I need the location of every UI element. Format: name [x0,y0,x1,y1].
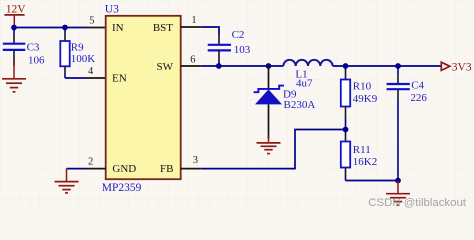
svg-text:103: 103 [234,44,251,56]
svg-text:49K9: 49K9 [353,93,378,105]
svg-text:106: 106 [28,55,45,67]
svg-text:6: 6 [190,54,195,65]
resistor R10 [341,66,350,130]
svg-text:C4: C4 [411,80,424,92]
label L1 4u7 [295,69,313,90]
svg-text:R11: R11 [353,144,371,156]
ground (D9) [257,135,281,154]
node junction R10 [343,63,349,69]
power port 3V3 [441,62,472,74]
label C2 103 [232,29,251,56]
label R10 49K9 [353,80,378,104]
svg-text:100K: 100K [71,53,96,65]
wire 12V rail to IN [14,27,86,29]
pin 3 FB stub [181,168,201,170]
svg-text:C2: C2 [232,29,245,41]
pin 2 GND stub [86,168,106,170]
pin 5 IN stub [86,27,106,29]
svg-text:1: 1 [191,15,196,26]
wire GND pin to ground [67,168,87,170]
svg-text:R9: R9 [71,42,84,54]
svg-text:3: 3 [193,155,198,166]
svg-text:16K2: 16K2 [353,156,377,168]
svg-text:IN: IN [112,22,124,34]
ground (C3) [2,62,26,92]
ground (output) [386,181,410,206]
svg-text:FB: FB [160,163,173,175]
svg-text:4: 4 [88,66,94,77]
node junction C2 [216,63,222,69]
inductor L1 [283,60,332,66]
pin 6 SW stub [181,65,201,67]
svg-text:MP2359: MP2359 [102,182,142,194]
wire BST to C2 [201,27,219,35]
node junction FB/R10/R11 [343,127,349,133]
label R9 100K [71,42,96,65]
node junction R11/C4/gnd [395,178,401,184]
svg-text:GND: GND [112,163,136,175]
svg-text:2: 2 [88,156,93,167]
diode D9 B230A schottky [254,66,284,139]
svg-text:3V3: 3V3 [452,62,472,74]
wire R9 to EN [65,77,86,79]
svg-text:EN: EN [112,73,127,85]
node junction D9 [266,63,272,69]
wire R11 to ground node [346,180,399,182]
svg-text:U3: U3 [105,3,119,15]
wire FB to divider [201,130,346,169]
pin 1 BST stub [181,26,201,28]
ground (GND pin) [55,169,79,193]
svg-text:SW: SW [157,61,174,73]
capacitor C4 [387,66,410,181]
svg-text:CSDN @tilblackout: CSDN @tilblackout [368,197,466,209]
svg-text:12V: 12V [6,3,27,15]
svg-text:BST: BST [153,22,173,34]
IC U3 MP2359 body [106,16,181,179]
svg-text:226: 226 [410,92,427,104]
power port 12V [4,3,26,27]
svg-text:R10: R10 [353,80,372,92]
svg-text:5: 5 [89,15,94,26]
pin 4 EN stub [86,77,106,79]
wire L1 to 3V3 [333,65,441,67]
svg-text:C3: C3 [27,42,40,54]
svg-text:B230A: B230A [284,99,316,111]
capacitor C3 [3,28,26,67]
node junction C4 [395,63,401,69]
resistor R9 [60,28,69,79]
resistor R11 [341,130,350,181]
capacitor C2 [208,45,231,66]
node junction 12V/C3 [11,25,17,31]
node junction R9 [62,25,68,31]
wire SW rail [201,65,284,67]
svg-text:4u7: 4u7 [296,77,313,89]
svg-text:CSDN @tilblackout CSDN @tilbla: CSDN @tilblackout CSDN @tilblackout CSDN… [2,195,354,207]
label C4 226 [410,80,427,105]
label C3 106 [27,42,45,67]
label R11 16K2 [353,144,377,168]
label D9 B230A [283,88,315,111]
